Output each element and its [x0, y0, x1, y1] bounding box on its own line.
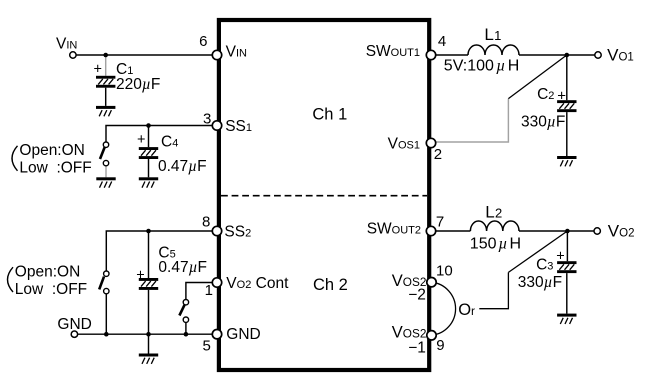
node junction VO1	[565, 53, 570, 58]
svg-text:3: 3	[203, 110, 211, 127]
wire stub SS1 wire down to C4	[148, 126, 150, 148]
ground (below C2)	[557, 156, 576, 166]
svg-text:Or: Or	[458, 301, 475, 319]
wire L1 to VO1 terminal	[519, 54, 595, 56]
inductor L2	[470, 221, 519, 231]
svg-text:220µF: 220µF	[116, 76, 160, 93]
node junction SS2/C5	[146, 229, 151, 234]
wire SS2 pin to switch branch	[106, 231, 217, 274]
node switch SW2 annotation paren	[8, 267, 14, 292]
switch SW3 (VO2 Cont)	[179, 300, 188, 335]
svg-text:−1: −1	[408, 340, 426, 357]
svg-text:7: 7	[436, 214, 444, 231]
capacitor C5	[139, 278, 158, 354]
svg-text:Low :OFF: Low :OFF	[19, 159, 91, 176]
svg-text:−2: −2	[408, 287, 426, 304]
svg-text:VO2 Cont: VO2 Cont	[226, 275, 289, 292]
wire stub VO1 node down to C2	[566, 55, 568, 100]
svg-text:4: 4	[438, 33, 446, 50]
svg-text:0.47µF: 0.47µF	[158, 158, 207, 175]
svg-text:Ch 2: Ch 2	[313, 276, 348, 294]
wire stub VO2 node down to C3	[566, 231, 568, 261]
svg-text:9: 9	[436, 337, 444, 354]
pin 7 SWOUT2	[426, 226, 435, 235]
svg-text:150µH: 150µH	[470, 236, 521, 253]
wire VOS2 Or feedback vertical+horizontal	[479, 272, 508, 308]
wire VOS1 feedback diagonal to VO1 node	[508, 55, 566, 99]
capacitor C2	[557, 100, 576, 156]
wire (gray stub from VIN wire down to C1)	[105, 55, 107, 76]
ground (below C4)	[139, 177, 158, 187]
node VO2 terminal	[594, 228, 600, 234]
svg-text:1: 1	[205, 282, 213, 299]
node VO1 terminal	[595, 52, 601, 58]
pin 8 SS2	[212, 226, 221, 235]
svg-text:5V:100µH: 5V:100µH	[444, 58, 520, 75]
svg-text:6: 6	[199, 33, 207, 50]
wire stub SS2 wire down to C5	[148, 231, 150, 278]
svg-text:GND: GND	[226, 326, 260, 343]
svg-text:+: +	[137, 132, 145, 148]
node GND terminal	[71, 331, 77, 337]
node junction GND rail / SW3	[184, 332, 189, 337]
node junction SS1/C4	[146, 123, 151, 128]
pin 9 VOS2-1	[427, 331, 436, 340]
capacitor C1	[96, 76, 115, 106]
node junction GND rail / SW2	[104, 332, 109, 337]
svg-text:+: +	[557, 87, 566, 104]
pin 4 SWOUT1	[426, 50, 435, 59]
wire VOS2 Or feedback diagonal to VO2 node	[508, 231, 567, 272]
svg-text:8: 8	[202, 213, 210, 230]
pin 1 VO2 Cont	[212, 278, 221, 287]
node junction VIN/C1	[103, 53, 108, 58]
wire L2 to VO2 terminal	[519, 230, 594, 232]
switch SW2 (SS2 Open/Low)	[99, 271, 109, 334]
ground (below C1)	[96, 106, 115, 116]
wire GND rail	[74, 333, 217, 335]
wire VO2 Cont pin to switch SW3	[186, 283, 217, 303]
svg-text:+: +	[94, 62, 102, 78]
pin 2 VOS1	[426, 138, 435, 147]
svg-text:10: 10	[436, 263, 453, 280]
node junction VO2	[565, 229, 570, 234]
ground (below C3)	[557, 314, 576, 324]
node junction GND rail / C5	[146, 332, 151, 337]
pin 10 VOS2-2	[427, 278, 436, 287]
ground (below C5 under GND rail)	[139, 354, 158, 364]
wire SS1 pin to switch branch	[106, 126, 217, 145]
capacitor C4	[139, 147, 158, 177]
wire SWOUT1 pin to L1	[431, 54, 468, 56]
wire arc joining pins 10 and 9 (Or selection)	[432, 282, 456, 335]
wire (dashed channel divider inside IC)	[221, 195, 427, 197]
pin 3 SS1	[212, 121, 221, 130]
ground (below switch SW1)	[96, 177, 115, 187]
svg-text:L2: L2	[485, 203, 502, 222]
svg-text:330µF: 330µF	[521, 113, 565, 130]
wire SWOUT2 pin to L2	[431, 230, 470, 232]
node VIN input terminal	[70, 52, 76, 58]
switch SW1 (SS1 Open/Low)	[100, 142, 109, 177]
wire VIN terminal to pin 6	[73, 54, 217, 56]
pin 5 GND	[212, 330, 221, 339]
svg-text:330µF: 330µF	[518, 274, 562, 291]
svg-text:0.47µF: 0.47µF	[158, 259, 207, 276]
svg-text:+: +	[136, 268, 144, 284]
svg-text:Open:ON: Open:ON	[15, 264, 80, 281]
svg-text:2: 2	[434, 146, 442, 163]
svg-text:+: +	[556, 248, 564, 264]
capacitor C3	[557, 261, 576, 313]
wire VOS1 feedback (gray horizontal+vertical)	[436, 99, 508, 142]
node switch SW1 annotation paren	[12, 146, 18, 171]
svg-text:5: 5	[203, 338, 211, 355]
svg-text:Low :OFF: Low :OFF	[15, 281, 87, 298]
op-amp U1 (IC outline box)	[219, 20, 429, 370]
svg-text:Open:ON: Open:ON	[19, 142, 84, 159]
svg-text:Ch 1: Ch 1	[312, 106, 347, 124]
inductor L1	[468, 45, 519, 55]
pin 6 VIN	[212, 50, 221, 59]
svg-text:L1: L1	[484, 25, 501, 44]
